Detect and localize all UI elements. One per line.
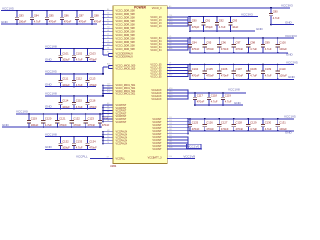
svg-text:VCC1V5: VCC1V5	[284, 115, 296, 119]
svg-text:G4: G4	[107, 26, 109, 28]
svg-text:100uF: 100uF	[19, 20, 27, 24]
svg-text:C120: C120	[45, 117, 52, 121]
svg-text:N8: N8	[107, 133, 109, 135]
svg-text:J4: J4	[107, 33, 109, 35]
svg-text:P4: P4	[107, 52, 109, 54]
svg-text:GND: GND	[2, 123, 10, 127]
svg-text:4.7uF: 4.7uF	[250, 47, 257, 51]
wire GND rail L5	[2, 126, 102, 128]
capacitor C109	[261, 64, 272, 81]
svg-text:C106: C106	[221, 67, 228, 71]
capacitor C90	[188, 16, 200, 32]
capacitor C113	[85, 73, 97, 87]
svg-text:VCCO_34: VCCO_34	[150, 49, 162, 52]
capacitor C99	[261, 37, 272, 54]
svg-text:VCCAUX: VCCAUX	[151, 98, 162, 101]
svg-text:C113: C113	[89, 77, 96, 81]
svg-text:GND: GND	[45, 105, 53, 109]
svg-text:VCC3V3: VCC3V3	[281, 4, 293, 8]
wire bus VCCO_34	[187, 38, 189, 50]
svg-text:C95: C95	[206, 41, 211, 45]
svg-text:R8: R8	[107, 139, 109, 141]
wire GND stub R0	[271, 24, 294, 26]
svg-text:VCCODDRAUX: VCCODDRAUX	[116, 56, 134, 59]
capacitor C117	[193, 92, 205, 106]
svg-text:C107: C107	[236, 67, 243, 71]
svg-text:C86: C86	[64, 13, 69, 17]
wire L3 rail to VCCO_MIO pins	[102, 67, 104, 74]
svg-text:G8: G8	[107, 109, 109, 111]
wire bus VCCINT	[187, 119, 189, 134]
svg-text:C111: C111	[62, 77, 69, 81]
wire GND rail L3	[45, 86, 96, 88]
svg-text:F4: F4	[107, 23, 109, 25]
svg-text:C109: C109	[265, 67, 272, 71]
svg-text:C4: C4	[107, 12, 109, 14]
svg-text:C122: C122	[73, 117, 80, 121]
capacitor C118	[207, 92, 218, 106]
svg-text:C129: C129	[250, 121, 257, 125]
svg-text:VCC1V8: VCC1V8	[45, 44, 57, 48]
svg-text:4.7uF: 4.7uF	[250, 74, 257, 78]
svg-text:4.7uF: 4.7uF	[265, 127, 272, 131]
capacitor C123	[84, 113, 96, 128]
capacitor C124	[98, 113, 110, 128]
svg-text:VCC1V0: VCC1V0	[188, 145, 200, 149]
svg-text:470nF: 470nF	[206, 127, 214, 131]
svg-text:GND: GND	[286, 52, 294, 56]
svg-text:470nF: 470nF	[197, 100, 205, 104]
capacitor C116	[85, 95, 97, 109]
wire VCC1V8 rail L4	[45, 95, 103, 97]
svg-text:470nF: 470nF	[49, 20, 57, 24]
wire VCC1V8 rail L6	[45, 136, 103, 138]
svg-text:470nF: 470nF	[221, 127, 229, 131]
wire GND rail R2	[190, 52, 288, 54]
svg-text:C93: C93	[232, 19, 237, 23]
capacitor C85	[45, 10, 57, 25]
svg-text:R4: R4	[107, 55, 109, 57]
svg-text:C123: C123	[88, 117, 95, 121]
svg-text:T8: T8	[107, 142, 109, 144]
capacitor C83	[15, 10, 27, 25]
svg-text:C127: C127	[221, 121, 228, 125]
capacitor C96	[217, 37, 229, 54]
svg-text:4.7uF: 4.7uF	[265, 74, 272, 78]
capacitor C101	[58, 48, 70, 62]
wire VCCPLL	[90, 158, 113, 160]
svg-text:470nF: 470nF	[221, 47, 229, 51]
svg-text:470nF: 470nF	[94, 20, 102, 24]
wire GND stub R4	[195, 104, 243, 106]
svg-text:F13: F13	[107, 92, 110, 94]
capacitor C105	[202, 64, 214, 81]
capacitor C98	[246, 37, 257, 54]
wire bus VCCO_35	[187, 65, 189, 77]
svg-text:C83: C83	[19, 13, 24, 17]
svg-text:C125: C125	[192, 121, 199, 125]
capacitor C108	[246, 64, 257, 81]
wire bus VCCO_13	[187, 17, 189, 26]
svg-text:C102: C102	[76, 51, 83, 55]
capacitor C129	[246, 118, 257, 132]
svg-text:4.7uF: 4.7uF	[225, 100, 232, 104]
svg-text:C134: C134	[89, 139, 96, 143]
svg-text:470nF: 470nF	[221, 74, 229, 78]
capacitor C106	[217, 64, 229, 81]
svg-text:C87: C87	[79, 13, 84, 17]
svg-text:M8: M8	[107, 130, 110, 132]
svg-text:470nF: 470nF	[88, 123, 96, 127]
svg-text:470pF: 470pF	[205, 25, 213, 29]
wire bus VCCO_DDR group	[103, 11, 105, 50]
wire bus VCCPINT-B group	[102, 105, 104, 122]
capacitor C122	[69, 113, 81, 128]
svg-text:J8: J8	[107, 114, 109, 116]
svg-text:E4: E4	[107, 19, 109, 21]
wire GND rail L2	[45, 60, 96, 62]
svg-text:470nF: 470nF	[236, 47, 244, 51]
svg-text:470pF: 470pF	[192, 25, 200, 29]
wire bus VCCO_MIO1 group	[102, 85, 104, 96]
svg-text:C85: C85	[49, 13, 54, 17]
wire VCC2V5 rail R3	[188, 64, 294, 66]
svg-text:H4: H4	[107, 30, 109, 32]
capacitor C134	[85, 136, 97, 150]
svg-text:C101: C101	[62, 51, 69, 55]
svg-text:F8: F8	[107, 106, 109, 108]
svg-text:470nF: 470nF	[102, 123, 110, 127]
svg-text:VCCPLL: VCCPLL	[116, 158, 126, 161]
capacitor C130	[261, 118, 272, 132]
capacitor C121	[55, 113, 67, 128]
capacitor C131	[275, 118, 287, 132]
svg-text:VCCO_DDR_508: VCCO_DDR_508	[116, 48, 136, 51]
svg-text:4.7uF: 4.7uF	[250, 127, 257, 131]
wire VCC1V8 rail L2	[45, 48, 103, 50]
svg-text:VCCO_35: VCCO_35	[150, 76, 162, 79]
svg-text:4.7uF: 4.7uF	[45, 123, 52, 127]
svg-text:VCC1V8: VCC1V8	[183, 155, 195, 159]
svg-text:C104: C104	[192, 67, 199, 71]
wire VCC1V0 rail L5	[16, 113, 103, 115]
svg-text:VCC1V5: VCC1V5	[2, 7, 14, 11]
svg-text:M4: M4	[107, 44, 110, 46]
svg-text:VCC1V0: VCC1V0	[16, 110, 28, 114]
capacitor C84	[30, 10, 41, 25]
svg-text:GND: GND	[285, 20, 293, 24]
wire bus VCCPAUX group	[102, 132, 104, 144]
svg-text:C132: C132	[62, 139, 69, 143]
svg-text:4.7uF: 4.7uF	[265, 47, 272, 51]
svg-text:VCCPAUX: VCCPAUX	[116, 143, 128, 146]
wire VCC1V5 rail R5	[188, 118, 294, 120]
wire VCCBATT to VCC1V8 label	[167, 157, 195, 159]
svg-text:100uF: 100uF	[279, 47, 287, 51]
svg-text:4.7uF: 4.7uF	[211, 100, 218, 104]
capacitor C93	[228, 16, 238, 32]
capacitor C112	[72, 73, 83, 87]
wire L2 rail to VCCODDRAUX pins	[102, 49, 104, 55]
capacitor C102	[72, 48, 83, 62]
wire GND rail L1	[1, 23, 97, 25]
capacitor C94	[188, 37, 200, 54]
capacitor C80	[269, 7, 280, 25]
svg-text:GND: GND	[1, 20, 9, 24]
wire GND rail L6	[45, 148, 96, 150]
svg-text:C88: C88	[94, 13, 99, 17]
wire VCC1V8 rail R4	[188, 92, 246, 94]
svg-text:VCC1V8: VCC1V8	[228, 88, 240, 92]
svg-text:VCC2V5: VCC2V5	[286, 60, 298, 64]
svg-text:C119: C119	[31, 117, 38, 121]
capacitor C125	[188, 118, 200, 132]
svg-text:VCCO_13: VCCO_13	[150, 25, 162, 28]
svg-text:H8: H8	[107, 112, 109, 114]
svg-text:C117: C117	[197, 93, 204, 97]
capacitor C111	[58, 73, 70, 87]
svg-text:4.7uF: 4.7uF	[34, 20, 41, 24]
svg-text:GND: GND	[256, 27, 264, 31]
wire VCC3V3 rail R1	[188, 16, 258, 18]
svg-text:L4: L4	[107, 40, 109, 42]
svg-text:L8: L8	[107, 120, 109, 122]
svg-text:VCCPINT: VCCPINT	[116, 121, 127, 124]
power symbol U2 POWER	[113, 6, 167, 164]
wire GND rail R3	[190, 78, 294, 80]
svg-text:E13: E13	[107, 89, 110, 91]
svg-text:C80: C80	[273, 10, 278, 14]
svg-text:K4: K4	[107, 37, 109, 39]
capacitor C92	[215, 16, 226, 32]
svg-text:C131: C131	[279, 121, 286, 125]
svg-text:470nF: 470nF	[79, 20, 87, 24]
capacitor C128	[232, 118, 244, 132]
capacitor C88	[90, 10, 102, 25]
svg-text:GND: GND	[285, 131, 293, 135]
svg-text:C118: C118	[211, 93, 218, 97]
svg-text:U2B4: U2B4	[110, 165, 117, 168]
wire VCC3V3 rail R2	[188, 37, 294, 39]
svg-text:10uF: 10uF	[232, 25, 238, 29]
wire VCCINT-B to VCC1V0 label	[188, 148, 202, 150]
svg-text:VCCINT: VCCINT	[152, 148, 162, 151]
svg-text:VCCO_0: VCCO_0	[152, 7, 162, 10]
svg-text:470nF: 470nF	[73, 123, 81, 127]
wire VCCO_0 to VCC3V3	[167, 7, 290, 9]
svg-text:470nF: 470nF	[206, 47, 214, 51]
capacitor C127	[217, 118, 229, 132]
svg-text:C100: C100	[279, 41, 286, 45]
capacitor C107	[232, 64, 244, 81]
svg-text:N4: N4	[107, 47, 109, 49]
capacitor C132	[58, 136, 70, 150]
svg-text:470nF: 470nF	[192, 127, 200, 131]
svg-text:470nF: 470nF	[64, 20, 72, 24]
svg-text:100uF: 100uF	[279, 74, 287, 78]
capacitor C103	[85, 48, 97, 62]
svg-text:D13: D13	[107, 86, 110, 88]
svg-text:B16: B16	[107, 67, 110, 69]
svg-text:VCC2V5: VCC2V5	[45, 70, 57, 74]
capacitor C133	[72, 136, 83, 150]
wire GND rail L4	[45, 108, 96, 110]
svg-text:C97: C97	[236, 41, 241, 45]
svg-text:C112: C112	[76, 77, 83, 81]
capacitor C126	[202, 118, 214, 132]
svg-text:VCCPLL: VCCPLL	[76, 154, 88, 158]
svg-text:GND: GND	[45, 145, 53, 149]
svg-text:GND: GND	[234, 101, 242, 105]
svg-text:C115: C115	[76, 99, 83, 103]
capacitor C120	[41, 113, 52, 128]
svg-text:C116: C116	[89, 99, 96, 103]
svg-text:C133: C133	[76, 139, 83, 143]
svg-text:A16: A16	[107, 63, 110, 66]
svg-text:C91: C91	[205, 19, 210, 23]
svg-text:GND: GND	[288, 75, 296, 79]
svg-text:C94: C94	[192, 41, 197, 45]
svg-text:470nF: 470nF	[192, 74, 200, 78]
svg-text:GND: GND	[45, 57, 53, 61]
svg-text:C99: C99	[265, 41, 270, 45]
capacitor C87	[75, 10, 87, 25]
capacitor C91	[201, 16, 213, 32]
svg-text:VCCO_MIO0_500: VCCO_MIO0_500	[116, 68, 136, 71]
wire VCC2V5 rail L3	[45, 73, 103, 75]
wire bus VCCAUX right	[187, 90, 189, 99]
svg-text:K8: K8	[107, 117, 109, 119]
capacitor C114	[58, 95, 70, 109]
svg-text:100uF: 100uF	[31, 123, 39, 127]
capacitor C86	[60, 10, 72, 25]
svg-text:470nF: 470nF	[236, 74, 244, 78]
svg-text:470nF: 470nF	[236, 127, 244, 131]
svg-text:C103: C103	[89, 51, 96, 55]
svg-text:C84: C84	[34, 13, 39, 17]
wire GND stub R1	[190, 30, 255, 32]
svg-text:C126: C126	[206, 121, 213, 125]
svg-text:470nF: 470nF	[59, 123, 67, 127]
capacitor C104	[188, 64, 200, 81]
svg-text:C92: C92	[219, 19, 224, 23]
svg-text:C114: C114	[62, 99, 69, 103]
svg-text:470nF: 470nF	[192, 47, 200, 51]
svg-text:C96: C96	[221, 41, 226, 45]
capacitor C97	[232, 37, 244, 54]
capacitor C95	[202, 37, 214, 54]
wire GND rail R5	[190, 130, 294, 132]
svg-text:P8: P8	[107, 136, 109, 138]
svg-text:4.7uF: 4.7uF	[273, 16, 280, 20]
capacitor C115	[72, 95, 83, 109]
svg-text:C121: C121	[59, 117, 66, 121]
svg-text:C119: C119	[225, 93, 232, 97]
svg-text:C90: C90	[192, 19, 197, 23]
svg-text:VCC1V8: VCC1V8	[45, 92, 57, 96]
svg-text:4.7uF: 4.7uF	[219, 25, 226, 29]
svg-text:D4: D4	[107, 16, 109, 18]
svg-text:VCCBATT_3: VCCBATT_3	[148, 157, 163, 160]
svg-text:POWER: POWER	[134, 6, 147, 10]
svg-text:C128: C128	[236, 121, 243, 125]
svg-text:GND: GND	[45, 83, 53, 87]
svg-text:G7: G7	[107, 157, 109, 159]
wire VCC1V5 rail	[1, 10, 104, 12]
svg-text:VCC3V3: VCC3V3	[285, 34, 297, 38]
capacitor C119	[221, 92, 232, 106]
svg-text:C98: C98	[250, 41, 255, 45]
svg-text:C130: C130	[265, 121, 272, 125]
svg-text:C105: C105	[206, 67, 213, 71]
capacitor C100	[275, 37, 287, 54]
svg-text:470nF: 470nF	[206, 74, 214, 78]
svg-text:C108: C108	[250, 67, 257, 71]
capacitor C119	[27, 113, 39, 128]
svg-text:E8: E8	[107, 103, 109, 105]
wire bus VCCAUX	[187, 137, 189, 149]
svg-text:F10: F10	[169, 156, 172, 158]
svg-text:C110: C110	[279, 67, 286, 71]
svg-text:C13: C13	[107, 83, 110, 85]
svg-text:VCC1V8: VCC1V8	[45, 132, 57, 136]
svg-text:VCC3V3: VCC3V3	[241, 12, 253, 16]
capacitor C110	[275, 64, 287, 81]
svg-text:B4: B4	[107, 9, 109, 11]
svg-text:VCCO_MIO1_501: VCCO_MIO1_501	[116, 93, 136, 96]
